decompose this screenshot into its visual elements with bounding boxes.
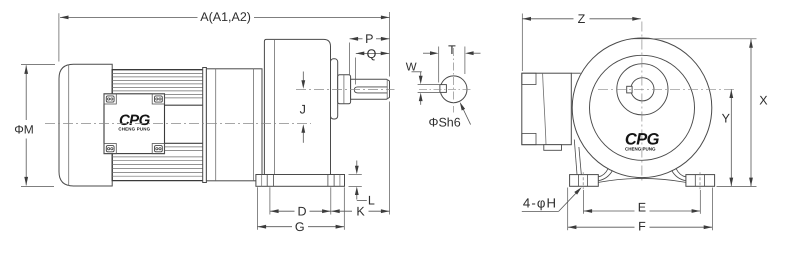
side view: fan cover bbox=[59, 64, 112, 186]
terminal box bbox=[522, 73, 572, 145]
gearbox seam line bbox=[273, 39, 275, 174]
motor fins lower-right of nameplate bbox=[165, 146, 205, 148]
shaft section vertical centerline bbox=[453, 48, 455, 113]
dimension Z bbox=[521, 14, 523, 72]
terminal box cable gland bbox=[544, 145, 562, 151]
svg-text:L: L bbox=[368, 194, 375, 208]
shaft centerline bbox=[296, 89, 395, 91]
shaft section horizontal centerline bbox=[419, 88, 472, 90]
dimension K bbox=[389, 102, 391, 215]
saddle fillet right bbox=[676, 168, 686, 177]
terminal box top latch bbox=[522, 73, 536, 84]
motor centerline bbox=[45, 122, 311, 124]
web line between feet bbox=[598, 178, 685, 182]
svg-text:CHENG PUNG: CHENG PUNG bbox=[118, 126, 150, 131]
shaft boss circle bbox=[617, 64, 668, 115]
fan cover crease line bbox=[68, 65, 70, 186]
motor terminal band edge lower right bbox=[165, 142, 205, 144]
dimension X bbox=[632, 38, 757, 40]
right foot bolt hole bbox=[694, 175, 696, 187]
front view horizontal centerline bbox=[598, 88, 736, 90]
svg-text:G: G bbox=[295, 220, 305, 234]
dimension D bbox=[269, 187, 271, 214]
motor terminal band edge upper right bbox=[165, 104, 205, 106]
gearbox housing bbox=[264, 39, 330, 174]
shaft end chamfer line bbox=[386, 80, 388, 99]
svg-text:D: D bbox=[297, 204, 306, 218]
svg-text:K: K bbox=[356, 204, 365, 218]
saddle fillet left bbox=[598, 168, 608, 177]
right foot front view bbox=[686, 175, 715, 187]
nameplate screw pads bbox=[104, 94, 116, 104]
terminal box bottom latch bbox=[522, 133, 536, 144]
motor body outline bbox=[112, 70, 204, 181]
svg-text:ΦM: ΦM bbox=[14, 122, 34, 136]
shaft cross-section circle bbox=[440, 76, 467, 103]
svg-text:T: T bbox=[448, 43, 456, 57]
left foot front view bbox=[570, 175, 599, 187]
gearbox face inner circle bbox=[590, 55, 695, 160]
motor cooling fins upper bbox=[112, 72, 204, 74]
svg-text:Z: Z bbox=[578, 12, 586, 26]
terminal box lid seam bbox=[543, 73, 546, 145]
motor bracket lines behind bbox=[574, 140, 577, 175]
motor rear end ring bbox=[203, 68, 207, 183]
dimension P bbox=[348, 43, 350, 76]
svg-text:P: P bbox=[365, 32, 373, 46]
svg-text:4-φH: 4-φH bbox=[523, 196, 557, 211]
svg-text:F: F bbox=[638, 219, 646, 233]
output shaft bbox=[351, 79, 390, 99]
svg-text:CHENG PUNG: CHENG PUNG bbox=[625, 147, 656, 152]
shaft keyway front view bbox=[627, 86, 632, 93]
dimension F bbox=[567, 188, 569, 231]
svg-text:X: X bbox=[759, 94, 768, 108]
output shaft shoulder ring bbox=[338, 75, 351, 104]
nameplate screws bbox=[106, 96, 114, 102]
motor cooling fins lower bbox=[112, 156, 204, 158]
dimension phi-M bbox=[21, 63, 55, 65]
nameplate bbox=[104, 94, 165, 154]
dimension A(A1,A2) bbox=[58, 13, 60, 61]
dimension J bbox=[302, 72, 304, 82]
svg-text:E: E bbox=[638, 200, 646, 214]
base bolt holes side view bbox=[261, 175, 263, 187]
dimension Q bbox=[355, 58, 357, 85]
dimension L bbox=[349, 173, 362, 175]
svg-text:ΦSh6: ΦSh6 bbox=[428, 115, 460, 129]
gearbox outer circle bbox=[572, 38, 712, 178]
motor fins upper-right of nameplate bbox=[165, 93, 205, 95]
terminal box to housing top edge bbox=[571, 72, 580, 74]
adapter seam lines bbox=[215, 69, 217, 181]
shaft end circle bbox=[631, 78, 654, 101]
dimension T bbox=[438, 47, 440, 83]
shaft keyway slot bbox=[354, 87, 387, 93]
svg-text:Q: Q bbox=[367, 47, 377, 61]
svg-text:A(A1,A2): A(A1,A2) bbox=[200, 10, 251, 24]
keyway notch bbox=[440, 85, 447, 93]
output bearing cover ring bbox=[331, 59, 338, 119]
svg-text:CPG: CPG bbox=[625, 131, 660, 149]
motor-gearbox adapter bbox=[206, 69, 262, 181]
dimension Y bbox=[730, 89, 732, 186]
dimension E bbox=[582, 190, 584, 214]
dimension G bbox=[256, 187, 258, 230]
left foot bolt hole bbox=[577, 175, 579, 187]
svg-text:J: J bbox=[300, 103, 306, 117]
gearbox base plate side view bbox=[256, 175, 345, 187]
front view vertical centerline bbox=[641, 22, 643, 184]
svg-text:Y: Y bbox=[722, 112, 731, 126]
